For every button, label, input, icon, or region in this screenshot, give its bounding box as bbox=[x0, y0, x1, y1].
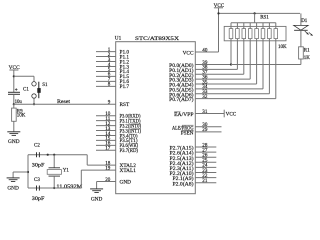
svg-text:XTAL1: XTAL1 bbox=[120, 168, 137, 174]
svg-text:GND: GND bbox=[120, 179, 132, 185]
svg-text:GND: GND bbox=[8, 139, 20, 145]
svg-text:P2.0(A8): P2.0(A8) bbox=[173, 180, 194, 187]
svg-text:10K: 10K bbox=[278, 45, 287, 50]
svg-text:30pF: 30pF bbox=[32, 197, 45, 202]
svg-text:P3.7(RD): P3.7(RD) bbox=[120, 147, 139, 154]
svg-text:RS1: RS1 bbox=[260, 15, 269, 20]
svg-text:VCC: VCC bbox=[183, 51, 194, 57]
svg-text:Reset: Reset bbox=[57, 100, 71, 105]
svg-text:C2: C2 bbox=[34, 143, 40, 148]
svg-text:P1.7: P1.7 bbox=[120, 84, 130, 90]
svg-text:29: 29 bbox=[202, 127, 208, 133]
svg-text:8: 8 bbox=[108, 82, 111, 88]
svg-text:10K: 10K bbox=[17, 114, 26, 119]
svg-text:U1: U1 bbox=[115, 35, 122, 41]
svg-text:Y1: Y1 bbox=[63, 168, 70, 173]
svg-text:P0.7(AD7): P0.7(AD7) bbox=[169, 96, 194, 103]
svg-text:R1: R1 bbox=[304, 48, 310, 53]
svg-text:C1: C1 bbox=[23, 87, 29, 92]
svg-text:1K: 1K bbox=[304, 56, 311, 61]
svg-text:STC/AT89X5X: STC/AT89X5X bbox=[135, 36, 179, 42]
svg-text:D1: D1 bbox=[301, 19, 308, 24]
svg-text:PSEN: PSEN bbox=[181, 131, 194, 137]
svg-text:GND: GND bbox=[7, 185, 19, 191]
svg-text:C3: C3 bbox=[34, 178, 40, 183]
svg-text:17: 17 bbox=[105, 146, 111, 152]
svg-text:GND: GND bbox=[91, 196, 103, 202]
svg-text:VCC: VCC bbox=[226, 111, 237, 117]
svg-text:30pF: 30pF bbox=[32, 164, 45, 169]
svg-text:S1: S1 bbox=[42, 83, 48, 88]
svg-text:21: 21 bbox=[202, 178, 208, 184]
svg-text:RST: RST bbox=[120, 102, 130, 108]
svg-text:EA/VPP: EA/VPP bbox=[174, 112, 193, 118]
